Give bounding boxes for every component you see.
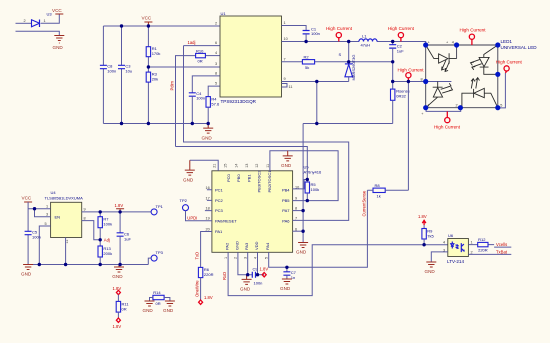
LED D-C bottom-left: [426, 82, 453, 108]
svg-text:19: 19: [206, 217, 210, 221]
capacitor C8: [100, 64, 116, 74]
power flag 1.8V (MCU vdd): [260, 266, 269, 277]
svg-text:VCC: VCC: [52, 8, 62, 13]
capacitor C6: [117, 212, 132, 265]
wire: SW line U1 pin10 to LED TL: [282, 42, 426, 46]
svg-text:15: 15: [224, 164, 228, 168]
svg-text:1adj: 1adj: [188, 40, 196, 45]
svg-text:2: 2: [456, 103, 458, 107]
resistor R3: [146, 67, 158, 124]
junction dots U4: [33, 207, 36, 210]
wire: U4 pin 11 pad to rail: [65, 238, 67, 265]
svg-text:GND: GND: [21, 272, 32, 277]
svg-text:9: 9: [295, 196, 297, 200]
power flag VCC (top-left): [52, 8, 63, 14]
svg-text:100k: 100k: [103, 222, 112, 227]
pin stubs 16-18: [205, 190, 212, 211]
svg-text:GND: GND: [240, 287, 251, 292]
optocoupler U6 LTV-214: [443, 233, 473, 264]
wire: U4 pin 3 EN tie: [35, 209, 51, 217]
ground GND (top-left): [53, 36, 65, 51]
power flag 1.8V (below R6): [199, 295, 213, 305]
wire: U6 pin 3 to ground: [431, 252, 448, 262]
wire: U4 ground rail: [28, 264, 148, 266]
svg-text:100n: 100n: [32, 235, 41, 240]
svg-text:9: 9: [284, 77, 286, 81]
wire: U3 output to VCC column: [41, 14, 59, 23]
svg-text:1uF: 1uF: [124, 237, 131, 242]
svg-text:High Current: High Current: [388, 26, 415, 31]
svg-text:R14: R14: [153, 290, 161, 295]
svg-text:220R: 220R: [478, 248, 488, 253]
LED1 pin labels: [421, 41, 503, 117]
svg-text:20k: 20k: [152, 77, 158, 82]
wire: VCC column to C5 and rail: [27, 202, 29, 265]
LED D-D bottom-center: [462, 78, 498, 108]
wire: CurrentSense riser from Rsense top to R8: [407, 82, 409, 191]
wire: U4 pin 5 to rail: [39, 226, 50, 265]
svg-text:CurrentSense: CurrentSense: [361, 190, 366, 217]
wire: Rsense top line to LED pin 8: [393, 81, 426, 83]
port High Current 5 (bottom): [434, 111, 461, 129]
wire: U1 pin 1 boot to C1: [282, 26, 307, 31]
svg-text:12: 12: [255, 164, 259, 168]
wire: pad 21 to left ground: [190, 160, 218, 171]
wire: U1 pin 9 power ground: [282, 81, 349, 83]
svg-text:GND: GND: [296, 250, 307, 255]
wire: pgnd down from pin9 line: [316, 82, 318, 124]
svg-text:PA3: PA3: [244, 242, 249, 250]
ground GND (U4 left): [21, 265, 33, 277]
svg-text:TxD: TxD: [195, 252, 200, 260]
wire: pgnd drop to MCU ground: [302, 124, 304, 243]
svg-text:PA4: PA4: [265, 242, 270, 250]
wire: U1 pin 5 to R4: [208, 86, 220, 97]
svg-text:S: S: [339, 52, 342, 57]
svg-text:GND: GND: [202, 135, 213, 140]
svg-text:1: 1: [224, 257, 228, 259]
ground GND (C7): [280, 279, 292, 291]
ground GND (MCU right): [296, 243, 308, 255]
wire: PB4 elbow: [293, 180, 308, 189]
svg-text:7: 7: [284, 57, 286, 61]
svg-text:High Current: High Current: [397, 68, 424, 73]
svg-text:2: 2: [234, 257, 238, 259]
svg-text:PA1: PA1: [215, 229, 223, 234]
svg-text:8: 8: [84, 217, 86, 221]
power flag 1.8V (R9): [418, 214, 427, 225]
junction dot R9: [422, 243, 425, 246]
svg-text:R12: R12: [478, 237, 486, 242]
wire: PA7 stub: [293, 210, 304, 212]
svg-text:21: 21: [212, 164, 216, 168]
test point TP2: [180, 198, 212, 221]
svg-text:0R: 0R: [122, 307, 127, 312]
ground GND (MCU top): [281, 151, 293, 168]
svg-text:GND: GND: [281, 163, 292, 168]
svg-text:RxD: RxD: [222, 272, 227, 280]
svg-text:100n: 100n: [107, 69, 116, 74]
svg-text:PC3: PC3: [215, 208, 224, 213]
svg-text:1k: 1k: [377, 193, 381, 198]
svg-text:4: 4: [215, 51, 217, 55]
svg-text:PC1: PC1: [215, 187, 224, 192]
svg-text:3: 3: [244, 257, 248, 259]
wire: RxD net from pin 1 to opto: [228, 245, 448, 296]
svg-text:5: 5: [500, 104, 502, 108]
svg-text:5: 5: [215, 82, 217, 86]
wire: U6 pin 2 TxBat: [468, 253, 511, 255]
svg-text:GND: GND: [234, 241, 239, 250]
svg-text:High Current: High Current: [326, 26, 353, 31]
LED D-B top-right: [471, 45, 498, 74]
wire: digital ground line over MCU: [270, 151, 338, 201]
diode U3: [24, 12, 53, 27]
port High Current 4 (mid-right): [496, 60, 523, 108]
svg-text:PA6: PA6: [282, 218, 290, 223]
resistor R10: [196, 48, 220, 63]
svg-text:200k: 200k: [103, 251, 112, 256]
svg-text:6: 6: [215, 41, 217, 45]
diode D1 schottky: [339, 42, 357, 82]
LED1 junction pads: [423, 42, 428, 47]
wire: U1 pin 7 sense line: [282, 61, 393, 63]
svg-text:GND: GND: [112, 274, 123, 279]
svg-text:2: 2: [24, 19, 26, 23]
svg-text:14: 14: [234, 164, 238, 168]
svg-text:170k: 170k: [152, 51, 161, 56]
svg-text:4: 4: [452, 41, 454, 45]
svg-text:PA0/RESET: PA0/RESET: [215, 218, 237, 223]
resistor R11: [116, 301, 129, 312]
svg-text:PA7: PA7: [282, 208, 290, 213]
svg-text:10: 10: [284, 37, 288, 41]
ground GND (U4 right): [112, 265, 124, 280]
resistor R12: [468, 237, 494, 252]
wire: pin 6 to ground: [293, 230, 304, 232]
resistor R6: [198, 267, 213, 300]
wire: C3 column: [121, 26, 123, 124]
junction dots mid: [304, 40, 307, 43]
wire: C8 column: [102, 26, 104, 124]
svg-text:0R32: 0R32: [396, 94, 406, 99]
svg-text:7k5: 7k5: [427, 233, 434, 238]
svg-text:20: 20: [206, 227, 210, 231]
svg-text:TP1: TP1: [156, 204, 164, 209]
svg-text:Vcells: Vcells: [496, 242, 507, 247]
capacitor C9: [252, 266, 264, 285]
svg-text:PA2: PA2: [225, 242, 230, 250]
svg-text:1: 1: [471, 241, 473, 245]
svg-text:EN: EN: [55, 215, 61, 220]
resistor R5: [305, 180, 319, 201]
wire: pin 5 CurrentSense run: [269, 190, 368, 267]
wire: Pdim vertical from R10: [176, 56, 196, 147]
svg-text:High Current: High Current: [496, 60, 523, 65]
power flag VCC (main rail): [142, 16, 153, 26]
port High Current 6 (top): [459, 27, 486, 45]
wire: U4 pin 9 output to TP1: [82, 211, 152, 213]
resistor R8: [367, 183, 408, 198]
wire: VCC rail to U1 pin 2: [103, 25, 220, 27]
wire: Pdim net to PB4/R5: [176, 147, 308, 180]
svg-text:1.8V: 1.8V: [113, 286, 122, 291]
svg-text:1: 1: [46, 205, 48, 209]
svg-text:PB4: PB4: [282, 187, 290, 192]
ground GND (MCU pad): [183, 160, 195, 183]
capacitor C3: [118, 64, 132, 74]
ground GND (MCU pin2): [240, 275, 252, 292]
svg-text:100k: 100k: [311, 187, 320, 192]
svg-text:1.8V: 1.8V: [260, 266, 269, 271]
test point TP3: [148, 250, 163, 265]
svg-text:2: 2: [215, 22, 217, 26]
junction dots top-left: [120, 24, 123, 27]
resistor R4: [206, 96, 220, 123]
resistor R9: [422, 225, 435, 245]
svg-text:Pdim: Pdim: [170, 80, 175, 90]
svg-text:PB3/TOSC2: PB3/TOSC2: [257, 170, 262, 193]
resistor R1: [146, 26, 160, 67]
svg-text:3: 3: [215, 62, 217, 66]
power flag VCC (U4): [22, 196, 33, 203]
capacitor C4: [189, 91, 205, 124]
svg-text:TP2: TP2: [180, 198, 188, 203]
microcontroller U5 ATtiny416: [205, 164, 322, 259]
wire: U1 pin 6 to 1adj vertical: [184, 45, 221, 47]
svg-text:8: 8: [295, 207, 297, 211]
svg-text:VCC: VCC: [22, 196, 32, 201]
svg-text:GND: GND: [280, 286, 291, 291]
svg-text:1uF: 1uF: [397, 48, 404, 53]
LED1 UNIVERSAL LED block: [501, 39, 538, 50]
svg-text:13: 13: [245, 164, 249, 168]
ground GND (R14 right): [163, 301, 175, 313]
svg-text:1.8V: 1.8V: [418, 214, 427, 219]
port High Current 3: [397, 68, 424, 82]
svg-text:100n: 100n: [254, 280, 263, 285]
svg-text:PC2: PC2: [215, 198, 224, 203]
svg-text:OneWire: OneWire: [195, 280, 200, 297]
svg-text:PB1: PB1: [247, 174, 252, 182]
svg-text:GND: GND: [183, 178, 194, 183]
resistor R13: [98, 246, 112, 265]
svg-text:57.6: 57.6: [211, 101, 220, 106]
svg-text:LTV-214: LTV-214: [447, 259, 464, 264]
junction dots MCU: [306, 178, 309, 181]
ground GND (R14 left): [143, 301, 155, 313]
svg-text:11: 11: [266, 164, 270, 168]
svg-text:TPS92313DGQR: TPS92313DGQR: [221, 99, 257, 104]
svg-text:1: 1: [44, 19, 46, 23]
svg-text:High Current: High Current: [459, 27, 486, 32]
svg-text:0R: 0R: [156, 301, 161, 306]
svg-text:17: 17: [206, 196, 210, 200]
svg-text:1.8V: 1.8V: [204, 295, 213, 300]
svg-text:PB5: PB5: [282, 198, 290, 203]
power flag 1.8V (R11 bottom): [113, 312, 122, 329]
svg-text:LED1: LED1: [501, 39, 513, 44]
wire: analog ground rail: [103, 123, 208, 125]
ground GND (U6): [425, 262, 437, 274]
svg-text:1: 1: [284, 21, 286, 25]
svg-text:TP3: TP3: [156, 250, 164, 255]
wire: LED bottom pin rail: [426, 108, 461, 112]
svg-text:11: 11: [289, 85, 293, 89]
resistor Rsense: [391, 62, 411, 124]
svg-text:TLS805B1LDVXUMA: TLS805B1LDVXUMA: [45, 196, 84, 201]
svg-text:18: 18: [206, 207, 210, 211]
svg-text:220R: 220R: [204, 272, 214, 277]
svg-text:PB2/TOSC1: PB2/TOSC1: [267, 170, 272, 193]
power flag 1.8V (R11 top): [113, 286, 122, 302]
wire: pin 4 supply drop: [257, 252, 259, 274]
capacitor C1: [303, 26, 320, 41]
svg-text:PC0: PC0: [226, 173, 231, 182]
svg-text:1.8V: 1.8V: [113, 324, 122, 329]
svg-text:VDD: VDD: [254, 241, 259, 250]
svg-text:47uH: 47uH: [361, 43, 371, 48]
svg-text:100n: 100n: [196, 96, 205, 101]
wire: U3 input top: [16, 22, 32, 24]
svg-text:High Current: High Current: [434, 125, 461, 130]
svg-text:U1: U1: [221, 11, 227, 16]
svg-text:5k: 5k: [305, 65, 309, 70]
capacitor C2: [389, 42, 404, 62]
node Vcells label: [494, 242, 511, 247]
svg-text:100n: 100n: [311, 31, 320, 36]
svg-text:GND: GND: [143, 308, 154, 313]
svg-text:ATtiny416: ATtiny416: [304, 170, 322, 175]
svg-text:9: 9: [84, 208, 86, 212]
LED D-A top-left: [426, 45, 457, 72]
test point TP1: [151, 204, 164, 215]
svg-text:4: 4: [443, 240, 445, 244]
svg-text:PB0: PB0: [236, 174, 241, 182]
svg-text:GND: GND: [53, 45, 64, 50]
inductor L1: [359, 34, 377, 48]
resistor R14: [150, 290, 170, 306]
regulator U4 TLS805B1LDVXUMA: [45, 190, 86, 243]
svg-text:MBRS260T3G: MBRS260T3G: [351, 54, 356, 80]
svg-text:VCC: VCC: [142, 16, 152, 21]
svg-text:U6: U6: [448, 233, 454, 238]
svg-text:GND: GND: [163, 308, 174, 313]
svg-text:UNIVERSAL LED: UNIVERSAL LED: [501, 45, 538, 50]
svg-text:R8: R8: [375, 183, 381, 188]
svg-text:5: 5: [265, 257, 269, 259]
power flag 1.8V (U4 out): [115, 203, 125, 212]
wire: 1adj net to PA6: [184, 46, 349, 221]
svg-text:GND: GND: [425, 269, 436, 274]
svg-text:0R: 0R: [198, 59, 203, 64]
svg-text:Adj: Adj: [104, 237, 110, 242]
capacitor C5: [25, 230, 41, 240]
wire: U4 pin 1 input: [28, 208, 50, 210]
port High Current 2: [388, 26, 415, 41]
svg-text:TxBat: TxBat: [496, 249, 508, 254]
svg-text:UPDI: UPDI: [187, 216, 197, 221]
resistor R2: [302, 54, 314, 69]
wire: pin 3 drop: [247, 252, 253, 274]
svg-text:U4: U4: [51, 190, 57, 195]
capacitor C7: [283, 267, 296, 280]
ground GND (rail): [202, 124, 214, 141]
svg-text:L1: L1: [362, 34, 367, 39]
svg-text:R2: R2: [304, 54, 310, 59]
svg-text:10u: 10u: [125, 69, 132, 74]
wire: U1 pin 8 to C4: [192, 76, 220, 93]
wire: lower return to GND column: [16, 31, 60, 35]
op-amp U1 TPS92313DGQR: [215, 11, 292, 104]
U1 pad 11 tick: [282, 84, 288, 88]
wire: U4 pin 8 adj sense: [82, 221, 101, 240]
resistor R7: [98, 212, 112, 252]
svg-text:1.8V: 1.8V: [115, 203, 124, 208]
svg-text:5: 5: [45, 222, 47, 226]
svg-text:4: 4: [253, 257, 257, 259]
svg-text:R10: R10: [196, 48, 204, 53]
wire: U1 pin 3 feedback tap: [148, 66, 220, 68]
wire: PA1 to R6 TxD: [201, 232, 212, 268]
wire: pin 2 ground drop: [238, 252, 247, 274]
wire: pgnd bottom run: [303, 123, 393, 125]
svg-text:8: 8: [421, 78, 423, 82]
svg-text:3: 3: [46, 213, 48, 217]
svg-text:8: 8: [215, 71, 217, 75]
svg-text:2: 2: [471, 250, 473, 254]
port High Current 1: [326, 26, 353, 41]
wire: LED block outline: [426, 45, 498, 108]
